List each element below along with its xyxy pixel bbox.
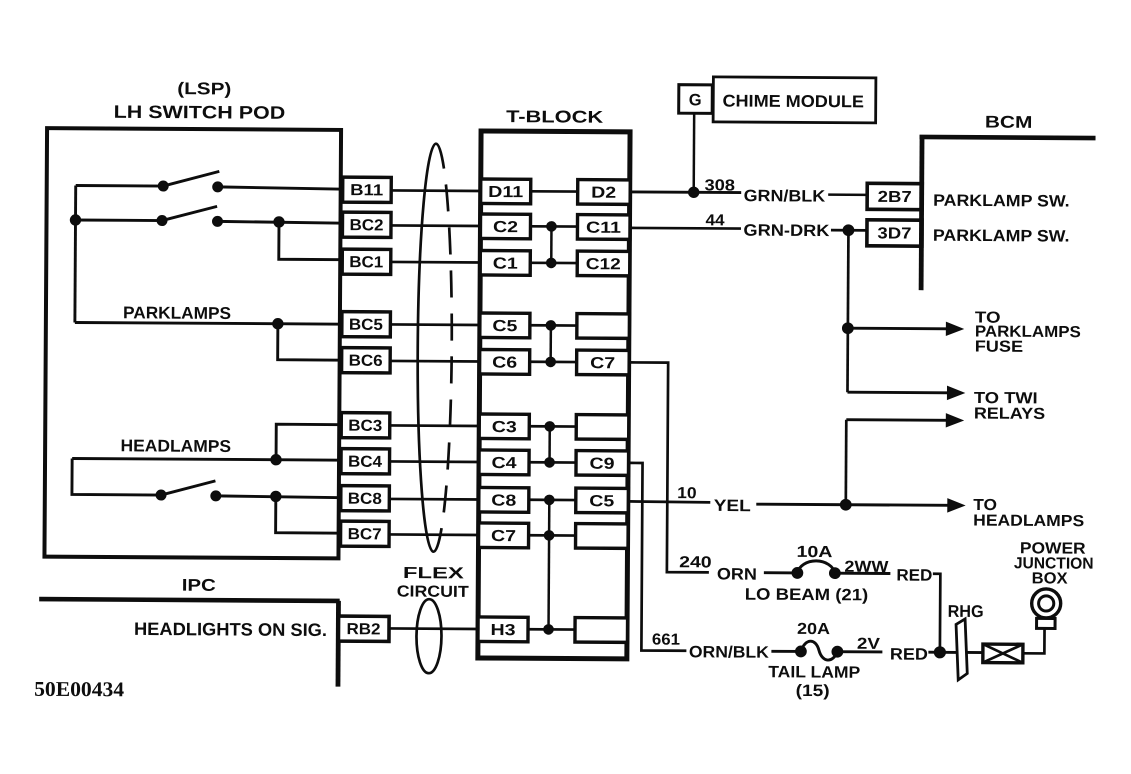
svg-text:GRN/BLK: GRN/BLK xyxy=(744,187,826,205)
svg-text:G: G xyxy=(689,91,702,109)
svg-text:CIRCUIT: CIRCUIT xyxy=(397,583,469,600)
wire: S3 to connector BC8 xyxy=(216,496,343,498)
connector BC8 xyxy=(341,486,390,511)
wire: BC5 to C5 xyxy=(390,323,481,326)
svg-text:50E00434: 50E00434 xyxy=(34,677,125,702)
svg-text:C5: C5 xyxy=(589,493,614,510)
pin C1 xyxy=(480,250,530,275)
wire: connector up to power junction box xyxy=(1023,628,1045,653)
svg-text:BC6: BC6 xyxy=(349,353,383,370)
svg-text:HEADLIGHTS ON SIG.: HEADLIGHTS ON SIG. xyxy=(134,619,327,640)
wire: headlamps left drop to switch S3 xyxy=(72,458,161,495)
pin blank row C7 xyxy=(576,524,629,549)
junction dot C7 row xyxy=(544,531,554,541)
wire: D2 to label GRN/BLK xyxy=(630,190,741,194)
svg-text:BC2: BC2 xyxy=(349,217,383,234)
svg-text:C2: C2 xyxy=(493,219,518,236)
wire: RED bracket down to tail lamp node xyxy=(932,574,940,653)
pin D2 xyxy=(578,180,631,205)
junction dot tail lamp feed xyxy=(934,647,945,658)
svg-text:FUSE: FUSE xyxy=(975,339,1024,356)
pin C5 right xyxy=(576,488,629,513)
pin C3 xyxy=(479,414,529,439)
svg-text:661: 661 xyxy=(652,632,680,649)
junction dot C1 row xyxy=(546,258,556,268)
wire: link C3 row to C4 row xyxy=(548,426,551,462)
wire: C6 to C7 xyxy=(530,360,577,363)
pin C7 xyxy=(479,523,529,548)
wire: arrow to parklamps fuse xyxy=(848,327,948,331)
wire: second branch arrow row xyxy=(846,418,947,422)
wire: S1 to connector B11 xyxy=(218,187,345,189)
svg-text:RB2: RB2 xyxy=(346,621,380,638)
wire: branch down to connector BC7 xyxy=(276,496,343,533)
LH switch pod (LSP) box xyxy=(44,128,341,558)
label TO TWI RELAYS xyxy=(974,390,1046,423)
wire: BC8 to C8 xyxy=(389,498,480,501)
svg-text:TAIL LAMP: TAIL LAMP xyxy=(768,663,860,682)
svg-text:CHIME MODULE: CHIME MODULE xyxy=(722,91,864,111)
grommet RHG xyxy=(956,619,968,680)
connector BC1 xyxy=(342,249,391,274)
svg-text:GRN-DRK: GRN-DRK xyxy=(743,222,829,241)
wire: YEL to headlamps arrow xyxy=(756,504,949,505)
svg-text:C6: C6 xyxy=(492,355,517,372)
label TO PARKLAMPS FUSE xyxy=(975,310,1082,357)
junction dot C3 row xyxy=(545,422,555,432)
pin H3 xyxy=(478,617,528,642)
wire: BC7 to C7 xyxy=(389,533,480,536)
fuse F2 20A xyxy=(795,641,842,660)
wire: B11 to D11 xyxy=(391,189,482,192)
svg-text:BC3: BC3 xyxy=(348,418,382,435)
svg-text:ORN/BLK: ORN/BLK xyxy=(689,643,769,661)
svg-text:RED: RED xyxy=(896,567,932,585)
wire: C2 to C11 xyxy=(531,225,578,228)
junction dot C5 row xyxy=(546,321,556,331)
svg-text:RELAYS: RELAYS xyxy=(974,405,1046,422)
svg-text:C8: C8 xyxy=(491,493,516,510)
wire: RB2 to H3 xyxy=(389,627,479,630)
chime module pin G box xyxy=(679,85,713,114)
junction dot C6 row xyxy=(546,357,556,367)
svg-text:C4: C4 xyxy=(491,455,516,472)
wire: C7 row xyxy=(529,534,576,537)
pin 2B7 xyxy=(867,183,922,209)
svg-text:C3: C3 xyxy=(492,419,517,436)
wire: link C5 row to C6 row xyxy=(549,325,552,361)
svg-text:H3: H3 xyxy=(490,622,515,639)
pin blank row C5 xyxy=(577,314,630,339)
wire: BC3 to C3 xyxy=(390,424,481,427)
svg-text:C7: C7 xyxy=(590,355,615,372)
IPC top edge xyxy=(39,599,339,601)
svg-text:240: 240 xyxy=(679,554,712,571)
svg-text:HEADLAMPS: HEADLAMPS xyxy=(121,436,232,456)
svg-text:C1: C1 xyxy=(493,256,518,273)
svg-text:BC4: BC4 xyxy=(348,454,382,471)
arrowhead parklamps fuse xyxy=(946,322,963,335)
wire: C7 right down to circuit 240 xyxy=(628,362,710,572)
pin C7 right xyxy=(577,350,630,375)
wire: RED to junction xyxy=(928,651,956,654)
svg-text:C11: C11 xyxy=(586,220,621,237)
junction dot on BC4 wire xyxy=(271,455,281,465)
wire: ORN/BLK to fuse F2 xyxy=(771,650,802,653)
svg-text:3D7: 3D7 xyxy=(877,225,911,242)
IPC right edge xyxy=(336,601,341,687)
chime module box xyxy=(713,77,876,123)
arrowhead second branch xyxy=(946,414,963,427)
switch S1 xyxy=(76,171,223,192)
svg-text:(LSP): (LSP) xyxy=(177,79,231,98)
wire: BC4 to C4 xyxy=(390,460,481,463)
svg-text:D11: D11 xyxy=(488,184,523,201)
pin C5 xyxy=(480,313,530,338)
junction dot circuit 44 xyxy=(843,225,854,236)
svg-text:44: 44 xyxy=(705,212,724,229)
wire: C3 row xyxy=(530,425,577,428)
wire: branch up to connector BC3 xyxy=(276,424,343,460)
junction dot H3 row xyxy=(544,625,554,635)
connector RB2 xyxy=(338,616,389,641)
wire: G down to circuit 308 xyxy=(692,113,695,192)
fuse F1 10A xyxy=(792,561,840,579)
junction dot circuit 308 xyxy=(688,187,698,197)
svg-text:LH SWITCH POD: LH SWITCH POD xyxy=(114,102,286,123)
connector BC3 xyxy=(341,413,390,438)
svg-text:C5: C5 xyxy=(492,318,517,335)
wire: C5 right to YEL xyxy=(628,501,710,502)
junction dot on BC5 wire xyxy=(273,319,283,329)
connector BC6 xyxy=(342,348,391,373)
junction dot on BC8 wire xyxy=(271,491,281,501)
junction dot C2 row xyxy=(547,222,557,232)
svg-text:HEADLAMPS: HEADLAMPS xyxy=(973,512,1084,530)
svg-text:YEL: YEL xyxy=(714,497,751,515)
pin C4 xyxy=(479,450,529,475)
arrowhead TWI relays xyxy=(947,386,964,399)
svg-text:BC7: BC7 xyxy=(348,526,382,543)
svg-text:10A: 10A xyxy=(796,544,833,561)
switch S2 xyxy=(75,206,222,227)
pin C12 xyxy=(577,251,630,276)
connector B11 xyxy=(343,177,392,202)
junction dot YEL xyxy=(840,499,851,510)
svg-text:BCM: BCM xyxy=(985,113,1033,132)
wire: branch down to YEL junction xyxy=(844,420,847,505)
wire: branch down to connector BC1 xyxy=(279,222,344,260)
wire: H3 row xyxy=(529,628,576,631)
svg-text:T-BLOCK: T-BLOCK xyxy=(506,107,604,127)
wire: C11 to label GRN-DRK xyxy=(630,227,741,230)
wire: fuse F1 to RED xyxy=(835,572,890,575)
svg-text:2V: 2V xyxy=(857,636,880,653)
switch S3 xyxy=(156,481,221,501)
T-BLOCK box xyxy=(478,131,630,659)
wire: branch down to connector BC6 xyxy=(278,324,344,360)
pin D11 xyxy=(481,179,531,204)
arrowhead headlamps xyxy=(948,499,965,512)
pin C11 xyxy=(577,215,630,240)
svg-text:LO BEAM (21): LO BEAM (21) xyxy=(745,586,869,605)
wire: arrow to TWI relays xyxy=(847,391,947,395)
svg-text:B11: B11 xyxy=(350,182,383,199)
svg-text:2B7: 2B7 xyxy=(878,189,912,206)
flex circuit main ellipse (right half dashed) xyxy=(433,144,452,552)
BCM left edge xyxy=(919,135,925,290)
svg-text:PARKLAMPS: PARKLAMPS xyxy=(123,303,231,323)
svg-text:C9: C9 xyxy=(589,456,614,473)
svg-text:BOX: BOX xyxy=(1032,570,1068,587)
BCM top edge xyxy=(920,137,1096,138)
wire: link C2 row to C1 row xyxy=(550,226,553,262)
wire: vertical bus from switch S1 left end down to parklamps wire xyxy=(73,186,77,323)
svg-text:D2: D2 xyxy=(591,185,616,202)
label POWER JUNCTION BOX xyxy=(1014,540,1094,587)
pin 3D7 xyxy=(867,220,922,246)
svg-text:BC5: BC5 xyxy=(349,317,383,334)
svg-text:ORN: ORN xyxy=(717,565,757,583)
wire: RHG to connector xyxy=(967,651,983,654)
wire: C1 to C12 xyxy=(531,261,578,264)
svg-text:C7: C7 xyxy=(491,528,516,545)
power junction box symbol xyxy=(1032,589,1061,629)
wire: GRN-DRK to 3D7 xyxy=(831,229,867,232)
connector BC7 xyxy=(341,521,390,546)
wire: 3D7 branch down xyxy=(846,230,850,392)
pin C9 xyxy=(576,451,629,476)
svg-text:308: 308 xyxy=(704,177,735,194)
wire: C9 down to circuit 661 xyxy=(627,463,687,651)
wire: C5 row xyxy=(530,324,577,327)
connector BC4 xyxy=(341,449,390,474)
flex circuit main ellipse (left half solid) xyxy=(416,144,435,552)
junction dot parklamps fuse xyxy=(842,323,853,334)
wire: GRN/BLK to 2B7 xyxy=(828,193,867,196)
pin blank row H3 xyxy=(575,618,628,643)
svg-text:PARKLAMP SW.: PARKLAMP SW. xyxy=(933,192,1070,211)
junction dot C4 row xyxy=(545,458,555,468)
wire: link C8 row down to H3 row xyxy=(547,500,550,629)
wire: BC1 to C1 xyxy=(391,261,482,264)
svg-text:10: 10 xyxy=(677,485,697,502)
svg-text:(15): (15) xyxy=(796,682,830,700)
wire: S2 to connector BC2 xyxy=(217,221,344,223)
wire: BC6 to C6 xyxy=(390,360,481,363)
wire: C4 to C9 xyxy=(530,461,577,464)
wire: D11 to D2 xyxy=(531,190,578,193)
svg-text:20A: 20A xyxy=(797,621,831,638)
svg-text:PARKLAMP SW.: PARKLAMP SW. xyxy=(933,227,1070,246)
svg-text:FLEX: FLEX xyxy=(403,565,465,582)
wire: C8 to C5 right xyxy=(529,498,576,501)
flex circuit small ellipse xyxy=(416,599,441,673)
junction dot on BC2 wire xyxy=(274,217,284,227)
connector BC5 xyxy=(342,312,391,337)
pin C2 xyxy=(480,214,530,239)
pin blank row C3 xyxy=(576,415,629,440)
pin C6 xyxy=(480,349,530,374)
svg-text:BC1: BC1 xyxy=(349,254,383,271)
wire: headlamps to connector BC4 xyxy=(72,458,342,460)
inline connector (crossed box) xyxy=(983,644,1023,663)
label TO HEADLAMPS xyxy=(973,497,1085,530)
svg-text:IPC: IPC xyxy=(182,576,216,595)
junction dot on bus at switch S2 row xyxy=(70,215,80,225)
pin C8 xyxy=(479,487,529,512)
wire: fuse F2 to RED xyxy=(837,650,882,653)
junction dot C8 row xyxy=(544,495,554,505)
connector BC2 xyxy=(342,212,391,237)
svg-text:BC8: BC8 xyxy=(348,491,382,508)
wire: parklamps to connector BC5 xyxy=(75,323,343,325)
svg-text:RED: RED xyxy=(890,645,928,663)
wire: ORN to fuse F1 xyxy=(764,571,799,574)
wire: BC2 to C2 xyxy=(391,224,482,227)
svg-text:C12: C12 xyxy=(586,256,621,273)
